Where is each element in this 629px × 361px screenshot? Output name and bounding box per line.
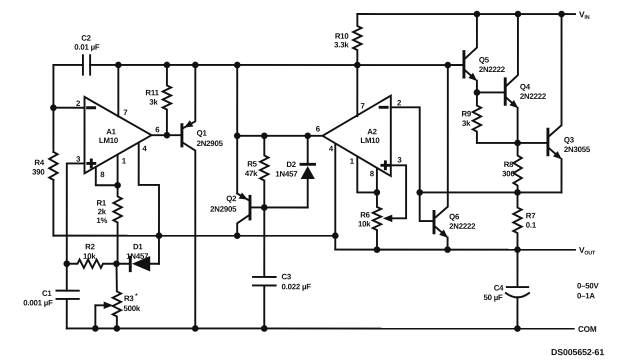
- node y65 / R11 top: [164, 62, 171, 69]
- svg-text:4: 4: [142, 144, 147, 153]
- wire y65 rail left of C2: [53, 64, 82, 66]
- svg-text:0–50V: 0–50V: [577, 281, 600, 290]
- wire A1 output to Q1 base: [152, 134, 181, 136]
- svg-text:7: 7: [360, 102, 364, 111]
- transistor Q5 bar: [462, 52, 465, 77]
- svg-text:1%: 1%: [96, 216, 107, 225]
- wire left vertical upper: [52, 65, 54, 152]
- svg-text:*: *: [135, 293, 138, 300]
- node y192 / R8 bottom: [514, 189, 521, 196]
- wire Q2 emitter vertical: [236, 65, 238, 194]
- wire Q5 base: [448, 64, 463, 66]
- wire A1 pin2 input: [53, 107, 84, 109]
- node y65 / R10 and A2 pin7: [354, 62, 361, 69]
- node Q5 emitter / R9 / Q4 base: [474, 89, 481, 96]
- node pin2 junction: [50, 104, 57, 111]
- wire A2 pin2 to Q6 base: [391, 107, 433, 221]
- wire A2 pin8: [376, 169, 378, 192]
- svg-text:COM: COM: [578, 325, 597, 334]
- svg-text:R9: R9: [461, 109, 471, 118]
- svg-text:1N457: 1N457: [126, 252, 148, 261]
- svg-text:C1: C1: [42, 289, 52, 298]
- svg-text:2N3055: 2N3055: [564, 145, 591, 154]
- node bus / A2 pin4 jog: [332, 232, 339, 239]
- wire bus y235: [53, 235, 335, 237]
- node out / Q2 emitter line: [234, 132, 241, 139]
- svg-text:A2: A2: [367, 127, 377, 136]
- svg-text:R10: R10: [335, 32, 350, 41]
- transistor Q3 bar: [546, 129, 549, 155]
- Q5 collector: [465, 14, 477, 59]
- wire R4 bottom to bus: [52, 180, 54, 236]
- svg-text:R11: R11: [145, 88, 159, 97]
- node bus / pin4-D1 link: [156, 232, 163, 239]
- node y192 / A2 pin2 - Q6 base: [416, 189, 423, 196]
- svg-text:Q4: Q4: [520, 82, 531, 91]
- svg-text:0.01 µF: 0.01 µF: [74, 43, 100, 52]
- capacitor C1: [66, 264, 68, 291]
- R3 wiper arrow: [95, 304, 104, 306]
- svg-text:4: 4: [329, 144, 334, 153]
- svg-text:2: 2: [397, 98, 402, 107]
- Q6 emitter: [435, 226, 446, 236]
- svg-text:6: 6: [155, 125, 160, 134]
- wire V_OUT bus: [335, 249, 575, 251]
- node COM / R3 bottom: [114, 325, 121, 332]
- Q6 collector: [435, 65, 448, 218]
- svg-text:8: 8: [370, 169, 375, 178]
- wire COM rail: [67, 327, 574, 329]
- svg-text:C3: C3: [281, 272, 291, 281]
- svg-text:2N2905: 2N2905: [210, 205, 237, 214]
- node vout / R7 bottom: [514, 246, 521, 253]
- svg-text:3: 3: [397, 156, 402, 165]
- svg-text:1N457: 1N457: [275, 169, 297, 178]
- svg-text:R1: R1: [97, 198, 107, 207]
- svg-text:R2: R2: [85, 242, 95, 251]
- svg-text:VOUT: VOUT: [579, 245, 596, 257]
- resistor R4: [49, 152, 57, 180]
- node out / R5 top: [261, 132, 268, 139]
- A2 plus sign: [382, 164, 389, 167]
- svg-text:R8: R8: [504, 160, 514, 169]
- wire A1 pin4 to bus and D1: [139, 142, 159, 263]
- svg-text:2N2222: 2N2222: [520, 92, 547, 101]
- svg-text:2N2905: 2N2905: [197, 139, 224, 148]
- svg-text:0.022 µF: 0.022 µF: [281, 282, 311, 291]
- svg-text:6: 6: [316, 125, 321, 134]
- svg-text:1: 1: [122, 157, 127, 166]
- node output / R11: [164, 132, 171, 139]
- svg-text:R6: R6: [360, 211, 370, 220]
- resistor R3 pot: [113, 264, 121, 329]
- wire A2 pin7: [356, 65, 358, 116]
- node COM / C3: [261, 325, 268, 332]
- svg-text:7: 7: [123, 108, 127, 117]
- resistor R10: [353, 14, 361, 65]
- wire y65 rail main: [90, 64, 463, 66]
- node COM / R3 wiper: [92, 325, 99, 332]
- wire A2 pin1: [357, 157, 377, 192]
- wire A1 pin3 input: [67, 163, 85, 263]
- node top rail / Q5 collector: [474, 11, 481, 18]
- svg-text:Q6: Q6: [449, 212, 460, 221]
- node y65 / Q1 emitter: [192, 62, 199, 69]
- node COM / Q1 collector: [192, 325, 199, 332]
- Q1 emitter: [183, 65, 195, 128]
- svg-text:D2: D2: [286, 160, 296, 169]
- node bus / Q2 collector: [234, 232, 241, 239]
- svg-text:3k: 3k: [462, 119, 471, 128]
- node A2 pins 1-8 / R6 top: [374, 189, 381, 196]
- resistor R2: [67, 260, 117, 268]
- capacitor C4: [516, 250, 518, 287]
- Q2 emitter diagonal: [237, 193, 249, 200]
- wire Q3 base rail: [477, 142, 547, 144]
- svg-text:0.1: 0.1: [526, 221, 537, 230]
- transistor Q4 bar: [504, 79, 507, 104]
- diode D1: [116, 263, 129, 265]
- Q5 emitter: [465, 70, 475, 79]
- Q3 emitter: [549, 148, 560, 157]
- Q4 collector: [506, 14, 518, 86]
- resistor R11: [163, 65, 171, 135]
- svg-text:10k: 10k: [358, 220, 371, 229]
- node y65 / Q2 emitter line: [234, 62, 241, 69]
- resistor R8: [513, 143, 521, 193]
- wire A1 pin7: [117, 65, 119, 117]
- resistor R1: [113, 185, 121, 264]
- node vout / R6 bottom: [374, 246, 381, 253]
- node out / D2 top: [304, 132, 311, 139]
- Q1 collector: [183, 143, 195, 329]
- svg-text:500k: 500k: [123, 304, 140, 313]
- wire top V_IN rail: [357, 13, 575, 15]
- wire bus jog down: [334, 236, 336, 250]
- svg-text:300: 300: [502, 169, 515, 178]
- node R2 left / C1: [63, 260, 70, 267]
- transistor Q6 bar: [433, 211, 436, 232]
- wire A1 pin1: [117, 155, 119, 186]
- svg-text:1: 1: [350, 157, 355, 166]
- svg-text:8: 8: [100, 170, 105, 179]
- svg-text:R7: R7: [526, 211, 536, 220]
- resistor R5: [260, 136, 268, 208]
- A1 minus sign: [88, 106, 95, 109]
- node Q2 base / R5: [261, 204, 268, 211]
- svg-text:Q5: Q5: [479, 56, 490, 65]
- svg-text:3k: 3k: [149, 98, 158, 107]
- svg-text:R5: R5: [247, 159, 257, 168]
- svg-text:3: 3: [76, 155, 81, 164]
- svg-text:R3: R3: [124, 294, 134, 303]
- node y65 / A1 pin7: [115, 62, 122, 69]
- op-amp A2: [323, 96, 391, 176]
- svg-text:R4: R4: [34, 158, 44, 167]
- svg-text:A1: A1: [106, 127, 116, 136]
- capacitor C2: [82, 55, 84, 74]
- wire feedback y192: [420, 191, 562, 193]
- svg-text:2: 2: [76, 99, 81, 108]
- node vout / Q6 emitter: [444, 246, 451, 253]
- wire Q2 base: [251, 206, 307, 208]
- node A1 pins 1-8: [114, 182, 121, 189]
- svg-text:D1: D1: [133, 242, 143, 251]
- svg-text:VIN: VIN: [579, 9, 590, 21]
- svg-text:C4: C4: [494, 284, 504, 293]
- svg-text:Q2: Q2: [226, 194, 237, 203]
- node R1-R2-D1-R3: [113, 260, 120, 267]
- node COM / C4: [514, 325, 521, 332]
- diode D2: [307, 136, 309, 164]
- svg-text:47k: 47k: [245, 169, 258, 178]
- svg-text:10k: 10k: [83, 252, 96, 261]
- svg-text:2N2222: 2N2222: [479, 65, 506, 74]
- A2 minus sign: [380, 106, 387, 109]
- resistor R9: [473, 92, 481, 143]
- svg-text:50 µF: 50 µF: [483, 293, 503, 302]
- op-amp A1: [85, 97, 152, 173]
- node top rail / Q3 collector: [558, 11, 565, 18]
- svg-text:DS005652-61: DS005652-61: [551, 347, 604, 357]
- wire A2 pin3 to R6 wiper: [388, 165, 406, 218]
- svg-text:2N2222: 2N2222: [449, 222, 476, 231]
- svg-text:0.001 µF: 0.001 µF: [23, 298, 53, 307]
- capacitor C3: [263, 207, 265, 277]
- wire A2 pin4: [334, 144, 336, 235]
- svg-text:390: 390: [32, 168, 45, 177]
- svg-text:2k: 2k: [98, 207, 107, 216]
- Q2 collector: [237, 215, 249, 235]
- resistor R6 pot: [373, 192, 381, 249]
- svg-text:0–1A: 0–1A: [577, 291, 595, 300]
- transistor Q2 bar: [249, 196, 252, 219]
- transistor Q1 bar: [180, 125, 183, 146]
- svg-text:Q1: Q1: [197, 129, 208, 138]
- A1 plus sign: [88, 162, 95, 165]
- svg-text:3.3k: 3.3k: [334, 40, 349, 49]
- svg-text:LM10: LM10: [99, 136, 119, 145]
- wire Q4 base: [477, 91, 504, 93]
- node y143 / Q4 emitter - R8 top: [514, 140, 521, 147]
- wire A2 output: [237, 135, 322, 137]
- node top rail / Q4 collector: [515, 11, 522, 18]
- Q4 emitter: [506, 98, 516, 107]
- Q3 collector: [549, 14, 562, 136]
- wire A1 pin8: [96, 167, 118, 185]
- svg-text:LM10: LM10: [360, 136, 380, 145]
- svg-text:C2: C2: [81, 34, 91, 43]
- resistor R7: [513, 192, 521, 249]
- svg-text:Q3: Q3: [564, 135, 575, 144]
- node y65 / Q6 collector: [445, 62, 452, 69]
